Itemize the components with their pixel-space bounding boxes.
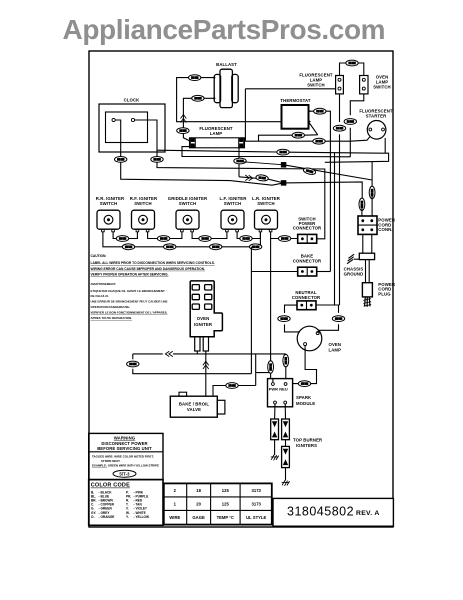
wire shallow bus segment sw3-sw4 [192,232,227,239]
fluorescent lamp switch FLUORESCENT LAMP SWITCH [299,73,343,94]
connector on ballast drop wire [177,128,189,134]
top burner igniter 2 [282,419,290,440]
connector on oven lamp right drop [332,316,344,322]
igniter switch R.R. [96,196,125,232]
svg-text:TOP BURNER: TOP BURNER [293,437,323,442]
svg-text:125: 125 [222,488,230,493]
wire thermostat Y-1 lead [309,111,331,271]
wire igniter3 to ground [285,468,287,481]
wire pwr long vertical from shallow bus to spark module [271,239,273,383]
wire spark module to top burner igniters [275,404,286,419]
clock CLOCK [99,98,165,153]
svg-text:STRIPE NEXT.: STRIPE NEXT. [101,459,121,463]
wire linking tops of the two lamp switches [340,63,364,76]
svg-text:BAKE / BROIL: BAKE / BROIL [179,402,210,407]
wire x=255.7 drop from neutral run [256,354,271,386]
wire J1 output diagonal to power cord connector right [284,162,373,189]
svg-text:OVEN: OVEN [197,316,210,321]
svg-text:TEMP °C: TEMP °C [217,515,234,520]
warning box WARNING DISCONNECT POWER [89,433,163,479]
connector on thermostat lower lead [292,132,304,138]
power cord connector POWER CORD CONN. [358,216,396,234]
connector below clock left [115,157,127,163]
neutral connector NEUTRAL CONNECTOR [292,290,321,310]
wire strain relief to plug [366,260,370,283]
svg-text:VERIFIER LE BON FONCTIONNEMENT: VERIFIER LE BON FONCTIONNEMENT DE L'APPA… [91,311,168,315]
svg-text:1: 1 [174,501,177,506]
wire lamp right cap bottom pin to fluorescent starter right (long run from clock wire) [157,138,389,162]
svg-text:18: 18 [196,488,201,493]
wire lamp right cap top pin to starter area [244,137,370,141]
wire shallow bus segment sw1-sw2 [113,232,137,239]
svg-text:CONNECTOR: CONNECTOR [293,259,322,264]
connector shallow bus 3 [199,236,211,242]
wire oven lamp switch bottom drop [283,94,363,157]
bake connector BAKE CONNECTOR [293,254,322,276]
svg-text:APRES TOUTE REPARATION.: APRES TOUTE REPARATION. [91,316,133,320]
schematic frame border [89,51,393,527]
wire igniter left prong to neutral run [196,351,198,354]
switch power connector SWITCH POWER CONNECTOR [293,216,322,243]
svg-text:BEFORE SERVICING UNIT: BEFORE SERVICING UNIT [97,446,152,451]
svg-text:IGNITERS: IGNITERS [296,443,317,448]
svg-text:SWITCH: SWITCH [179,201,197,206]
svg-text:CONN.: CONN. [378,227,392,232]
wire neutral connector left to oven lamp left [285,305,300,332]
wire drop from lamp bottom line to arrow line [238,151,240,176]
svg-text:PLUG: PLUG [378,291,391,296]
wire chassis ground link [354,258,360,260]
svg-text:SWITCH: SWITCH [224,201,242,206]
svg-text:THERMOSTAT: THERMOSTAT [280,98,310,103]
caution text block english [91,254,215,277]
svg-text:CLOCK: CLOCK [124,98,141,103]
chassis ground symbol [347,254,354,264]
svg-text:LAMP: LAMP [329,348,342,353]
connector above power cord conn left [359,198,365,210]
connector Y-1 [314,108,326,114]
svg-text:BALLAST: BALLAST [216,62,237,67]
connector above power cord conn right [369,186,375,198]
igniter switch R.F. [130,196,158,232]
wire fluorescent switch bottom drop (long, to neutral area) [339,94,341,305]
wire arrow line into junction J2 [239,177,284,183]
svg-text:R.F. IGNITER: R.F. IGNITER [130,196,158,201]
bake broil valve BAKE / BROIL VALVE [170,392,225,417]
chevron arrows on neutral run [165,351,172,356]
connector ballast bottom [192,95,204,101]
connector on oven lamp bottom run [298,381,310,387]
igniter switch L.F. [220,196,248,232]
part number strip 318045802 REV. A [273,498,393,526]
connector on pwr vertical [268,361,274,373]
svg-text:- ORANGE: - ORANGE [99,515,115,519]
svg-text:SWITCH: SWITCH [307,83,325,88]
svg-text:GRIDDLE IGNITER: GRIDDLE IGNITER [168,196,208,201]
wire valve to spark module line [213,386,256,397]
svg-text:PWR NEU: PWR NEU [269,387,288,392]
svg-text:R.R. IGNITER: R.R. IGNITER [96,196,125,201]
connector deep bus 1 [122,244,134,250]
wire J1 input from lamp drop connector [239,162,284,165]
wire bake connector right stub to thermostat drop [317,271,331,273]
connector on neutral-left drop [278,316,290,322]
connector on left loop [127,361,139,367]
svg-text:WARNING: WARNING [114,435,136,440]
wire shallow bus segment sw2-sw3 [148,232,182,239]
wire power cord conn to strain relief [363,234,372,253]
wire lamp left cap bottom pin run (H2) [182,147,283,157]
wire power conn right feed [371,196,373,216]
svg-text:VERIFY PROPER OPERATION AFTER: VERIFY PROPER OPERATION AFTER SERVICING. [91,273,169,277]
fluorescent lamp FLUORESCENT LAMP [190,126,245,148]
wire deep bus segment sw3-sw4 [182,246,227,248]
wire ballast bottom lead [183,98,214,140]
color code box COLOR CODE [89,480,163,526]
wire shallow bus segment sw4-sw5 [237,232,260,239]
connector on lamp bottom line [277,149,289,155]
connector shallow bus 1 [116,236,128,242]
wire thermostat bottom diagonal to lower lead line [308,122,317,135]
connector on J2 arrow line [256,174,269,181]
connector deep bus 3 [210,244,222,250]
power cord plug POWER CORD PLUG [362,282,395,307]
junction J1 [281,163,285,167]
caution text block french [91,282,168,320]
svg-text:5/T-3: 5/T-3 [119,471,130,476]
spark module SPARK MODULE [268,379,316,407]
connector on J1 diagonal [303,167,316,176]
wire neutral run with left arrows [133,353,286,355]
svg-text:AVERTISSEMENT:: AVERTISSEMENT: [91,282,116,286]
wire deep bus segment sw1-sw2 [103,232,137,247]
connector shallow bus 4 [240,236,252,242]
wire clock right terminal to connector [135,120,157,157]
wire shallow bus segment sw5 to switch power connector [271,232,298,239]
connector deep bus 4 [249,244,261,250]
connector on drop wire [234,158,246,164]
svg-text:318045802: 318045802 [287,505,354,519]
ground symbol igniter 1 [271,455,279,461]
svg-text:DE CELUI-CI.: DE CELUI-CI. [91,294,110,298]
wire long drop to bake connector and valve loop [251,247,297,374]
wire gage table [164,483,272,524]
connector deep bus 2 [164,244,176,250]
top burner igniter 1 [271,419,279,440]
top burner igniter 3 [282,446,290,467]
oven lamp OVEN LAMP [297,326,341,352]
thermostat THERMOSTAT [280,98,310,129]
wire igniter1 to ground [274,440,276,455]
oven igniter OVEN IGNITER [190,281,222,351]
svg-text:SPARK: SPARK [296,395,312,400]
svg-text:L.R. IGNITER: L.R. IGNITER [252,196,281,201]
svg-text:GROUND: GROUND [344,272,364,277]
svg-text:125: 125 [222,501,230,506]
ground symbol igniter 3 [282,480,290,486]
connector ballast top [189,75,201,81]
wire igniter2 to igniter3 [285,440,287,447]
svg-text:MODULE: MODULE [296,401,315,406]
svg-text:LABEL ALL WIRES PRIOR TO DISCO: LABEL ALL WIRES PRIOR TO DISCONNECTION W… [91,261,215,265]
svg-text:VALVE: VALVE [187,407,201,412]
connector between switch tops [346,60,358,66]
connector on valve-module line [226,383,238,389]
svg-text:L.F. IGNITER: L.F. IGNITER [220,196,248,201]
svg-text:WIRE: WIRE [169,515,180,520]
wire J2 output to power cord connector left [284,182,363,201]
svg-text:CONNECTOR: CONNECTOR [293,226,322,231]
igniter switch GRIDDLE [168,196,208,232]
wire clock-left long run into junction J2 [121,162,284,185]
wire igniter right prong to valve [205,351,207,396]
svg-text:Y.: Y. [126,515,129,519]
connector shallow bus 2 [157,236,169,242]
svg-text:AppliancePartsPros.com: AppliancePartsPros.com [63,14,386,45]
svg-text:SWITCH: SWITCH [373,85,391,90]
wire branch down to neutral connector right [316,153,334,305]
svg-text:UNE ERREUR DE BRANCHEMENT PEUT: UNE ERREUR DE BRANCHEMENT PEUT CAUSER UN… [91,300,168,304]
chevron arrow on ballast drop wire [181,115,187,123]
svg-text:CAUTION:: CAUTION: [91,254,107,258]
svg-text:- YELLOW: - YELLOW [134,515,150,519]
wire neutral vertical to oven lamp right [318,305,340,333]
svg-text:LAMP: LAMP [210,131,223,136]
svg-text:SWITCH: SWITCH [134,201,152,206]
svg-text:OVEN: OVEN [329,342,342,347]
oven lamp switch OVEN LAMP SWITCH [360,75,391,94]
svg-text:CONNECTOR: CONNECTOR [292,295,321,300]
connector on fluorescent switch drop [333,125,345,131]
wire deep bus segment sw2-sw3 [137,246,182,248]
svg-text:REV. A: REV. A [356,510,380,517]
connector shallow bus 5 [278,236,290,242]
strain relief block [359,253,374,259]
fluorescent starter FLUORESCENT STARTER [359,109,393,140]
wire clock left terminal to connector [115,120,121,157]
svg-text:ETIQUETER CHAQUE FIL AVANT LE: ETIQUETER CHAQUE FIL AVANT LE BRANCHEMEN… [91,289,166,293]
thermostat terminal nubs [309,110,312,123]
connector on oven lamp switch drop [344,119,356,125]
junction J2 [281,181,285,185]
svg-text:O.: O. [91,515,94,519]
wire oven lamp bottom to spark module neu [293,346,317,384]
wire power conn left feed [361,207,363,216]
wire left loop down to bake drop [133,354,252,374]
svg-text:20: 20 [196,501,201,506]
connector on lamp-starter line [313,138,325,144]
wire ballast top lead [177,78,282,122]
svg-text:UL STYLE: UL STYLE [246,515,266,520]
svg-text:COLOR CODE: COLOR CODE [91,483,130,489]
chevron arrow on igniter-valve wire [203,361,209,369]
svg-text:EXAMPLE: GREEN WIRE WITH YELLO: EXAMPLE: GREEN WIRE WITH YELLOW STRIPE [92,464,159,468]
ballast BALLAST [214,62,238,108]
svg-text:IGNITER: IGNITER [194,322,213,327]
svg-text:GAGE: GAGE [192,515,205,520]
wire neu drop to spark module [285,354,287,379]
svg-text:3173: 3173 [252,488,262,493]
svg-text:3173: 3173 [252,501,262,506]
wire deep bus segment sw4-sw5 [227,232,262,247]
connector on neu drop [283,354,289,366]
svg-text:SWITCH: SWITCH [257,201,275,206]
igniter switch L.R. [252,196,281,232]
wire ballast to fluorescent lamp switch [245,89,335,141]
svg-text:WIRING ERROR CAN CAUSE IMPROPE: WIRING ERROR CAN CAUSE IMPROPER AND DANG… [91,267,206,271]
chevron arrows on J2 line [245,175,253,181]
wire thermostat lower lead line [259,135,318,141]
wire clock-right long run to switch power connector [157,162,325,239]
svg-text:OPERATION DANGEREUSE.: OPERATION DANGEREUSE. [91,305,131,309]
svg-text:SWITCH: SWITCH [100,201,118,206]
svg-text:2: 2 [174,488,177,493]
connector below clock right [151,157,163,163]
svg-text:STARTER: STARTER [366,114,387,119]
